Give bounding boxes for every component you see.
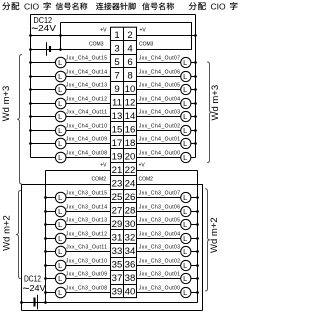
svg-text:L: L: [183, 85, 187, 94]
svg-text:Jxx_Ch3_Out04: Jxx_Ch3_Out04: [139, 231, 181, 237]
lamp L (pin 25): [55, 192, 66, 203]
svg-text:Jxx_Ch3_Out15: Jxx_Ch3_Out15: [66, 190, 108, 196]
svg-text:COM2: COM2: [92, 177, 107, 183]
lamp L (pin 37): [55, 273, 66, 284]
svg-text:Jxx_Ch3_Out12: Jxx_Ch3_Out12: [66, 231, 108, 237]
svg-text:13: 13: [112, 111, 123, 122]
junction dots (lower-right): [196, 196, 199, 294]
supply bus (lower-right): [197, 171, 199, 303]
lamp L (pin 30): [181, 219, 191, 229]
svg-text:15: 15: [112, 125, 123, 136]
wire: row pin 20: [137, 157, 196, 159]
svg-text:Jxx_Ch4_Out03: Jxx_Ch4_Out03: [139, 109, 181, 115]
svg-text:27: 27: [112, 206, 123, 217]
junction dots (top-right): [194, 34, 197, 145]
svg-text:Jxx_Ch4_Out04: Jxx_Ch4_Out04: [139, 96, 181, 102]
svg-text:L: L: [58, 99, 62, 108]
svg-text:Wd m+2: Wd m+2: [2, 215, 13, 251]
lamp L (pin 10): [181, 84, 191, 94]
svg-text:Jxx_Ch4_Out08: Jxx_Ch4_Out08: [66, 150, 108, 156]
junction dots (top-left): [29, 34, 62, 145]
svg-text:Jxx_Ch4_Out02: Jxx_Ch4_Out02: [139, 123, 181, 129]
header label: 信号名称 (right): [142, 3, 174, 10]
lamp L (pin 33): [55, 246, 66, 257]
wire: row pin 29: [46, 224, 111, 226]
lamp L (pin 7): [55, 71, 66, 82]
svg-text:L: L: [183, 288, 187, 297]
svg-text:L: L: [183, 193, 187, 202]
wire: +V to pin 2: [137, 35, 196, 37]
lamp L (pin 13): [55, 111, 66, 122]
svg-text:Jxx_Ch4_Out07: Jxx_Ch4_Out07: [139, 55, 181, 61]
svg-text:L: L: [58, 85, 62, 94]
svg-text:21: 21: [112, 165, 123, 176]
svg-text:9: 9: [114, 84, 119, 95]
wire: row pin 38: [137, 278, 198, 280]
junction dots (lower-left): [20, 196, 47, 304]
wire: row pin 6: [137, 62, 196, 64]
svg-text:Jxx_Ch4_Out14: Jxx_Ch4_Out14: [66, 69, 108, 75]
svg-text:23: 23: [112, 179, 123, 190]
svg-text:Jxx_Ch4_Out11: Jxx_Ch4_Out11: [66, 109, 107, 115]
wire: row pin 36: [137, 265, 198, 267]
svg-text:36: 36: [125, 260, 136, 271]
svg-text:Jxx_Ch3_Out10: Jxx_Ch3_Out10: [66, 258, 108, 264]
svg-text:L: L: [58, 288, 62, 297]
svg-text:Jxx_Ch3_Out09: Jxx_Ch3_Out09: [66, 271, 108, 277]
wire: row pin 27: [46, 211, 111, 213]
lamp L (pin 9): [55, 84, 66, 95]
header label: 分配 CIO 字 (right): [189, 1, 237, 11]
svg-text:Jxx_Ch3_Out02: Jxx_Ch3_Out02: [139, 258, 181, 264]
svg-text:Jxx_Ch4_Out15: Jxx_Ch4_Out15: [66, 55, 108, 61]
svg-text:COM2: COM2: [139, 177, 154, 183]
lamp L (pin 32): [181, 233, 191, 243]
wire: row pin 14: [137, 116, 196, 118]
lamp L (pin 35): [55, 260, 66, 271]
svg-text:L: L: [183, 234, 187, 243]
battery symbol (top supply): [47, 42, 51, 55]
svg-text:Jxx_Ch4_Out09: Jxx_Ch4_Out09: [66, 136, 108, 142]
svg-text:11: 11: [112, 97, 122, 108]
svg-text:L: L: [58, 220, 62, 229]
svg-text:34: 34: [125, 246, 136, 257]
lamp L (pin 26): [181, 192, 191, 202]
wire: row pin 7: [31, 76, 111, 78]
supply bus (top-right): [195, 15, 197, 158]
wire: +V to pin 22: [137, 170, 198, 172]
svg-text:Jxx_Ch3_Out01: Jxx_Ch3_Out01: [139, 271, 181, 277]
svg-text:35: 35: [112, 260, 123, 271]
lamp L (pin 6): [181, 57, 191, 67]
battery symbol (bottom supply): [35, 295, 38, 310]
svg-text:8: 8: [127, 70, 132, 81]
svg-text:COM3: COM3: [139, 42, 154, 48]
svg-text:28: 28: [125, 206, 136, 217]
group brace Wd m+3 (right): [207, 62, 212, 163]
svg-text:L: L: [183, 274, 187, 283]
wire: COM2 to pin 23: [22, 184, 111, 186]
svg-text:L: L: [183, 207, 187, 216]
svg-text:7: 7: [114, 70, 119, 81]
wire: row pin 25: [46, 197, 111, 199]
group brace Wd m+2 (left): [16, 190, 21, 278]
svg-text:+V: +V: [100, 28, 107, 34]
svg-text:Wd m+3: Wd m+3: [210, 85, 221, 121]
svg-text:CIO: CIO: [24, 1, 40, 11]
wire: bottom COM2 bus: [22, 310, 203, 312]
svg-text:4: 4: [127, 43, 133, 54]
header label: 分配 CIO 字 (left): [2, 1, 50, 11]
svg-text:L: L: [58, 153, 62, 162]
group brace Wd m+3 (left): [17, 55, 22, 185]
svg-text:24: 24: [125, 179, 136, 190]
header label: 信号名称 (left): [56, 3, 88, 10]
svg-text:14: 14: [125, 111, 136, 122]
svg-text:L: L: [183, 261, 187, 270]
wire: COM3 to pin 3: [31, 49, 111, 51]
svg-text:L: L: [58, 234, 62, 243]
wire: row pin 40: [137, 292, 198, 294]
svg-text:12: 12: [125, 97, 136, 108]
svg-text:26: 26: [125, 192, 136, 203]
svg-text:38: 38: [125, 273, 136, 284]
wire: row pin 28: [137, 211, 198, 213]
lamp L (pin 12): [181, 98, 191, 108]
svg-text:L: L: [58, 274, 62, 283]
wire: row pin 12: [137, 103, 196, 105]
svg-text:20: 20: [125, 152, 136, 163]
wire: row pin 13: [31, 116, 111, 118]
svg-text:L: L: [183, 72, 187, 81]
lamp L (pin 17): [55, 138, 66, 149]
svg-text:L: L: [58, 261, 62, 270]
lamp L (pin 15): [55, 125, 66, 136]
wire: +V to pin 21: [46, 170, 111, 172]
DC supply box (top) DC12~24V: [30, 15, 32, 36]
wire: row pin 8: [137, 76, 196, 78]
lamp L (pin 38): [181, 273, 191, 283]
svg-text:L: L: [183, 99, 187, 108]
wire: battery row to lower-right bus: [22, 302, 198, 304]
svg-text:3: 3: [114, 43, 119, 54]
svg-text:10: 10: [125, 84, 136, 95]
lamp L (pin 29): [55, 219, 66, 230]
group brace Wd m+2 (right): [205, 189, 210, 291]
lamp L (pin 36): [181, 260, 191, 270]
svg-text:L: L: [58, 207, 62, 216]
lamp L (pin 31): [55, 233, 66, 244]
lamp L (pin 34): [181, 246, 191, 256]
svg-text:2: 2: [127, 30, 132, 41]
wire: row pin 39: [46, 292, 111, 294]
wire: COM3 link across top (line B): [61, 23, 192, 50]
connector body (40-pin table): [111, 27, 137, 297]
svg-text:L: L: [183, 153, 187, 162]
header label: 连接器针脚: [96, 3, 136, 10]
lamp L (pin 8): [181, 71, 191, 81]
svg-text:33: 33: [112, 246, 123, 257]
svg-text:Jxx_Ch4_Out10: Jxx_Ch4_Out10: [66, 123, 108, 129]
svg-text:L: L: [183, 220, 187, 229]
svg-text:32: 32: [125, 233, 136, 244]
svg-text:L: L: [58, 139, 62, 148]
svg-text:COM3: COM3: [89, 42, 104, 48]
svg-text:Jxx_Ch3_Out07: Jxx_Ch3_Out07: [139, 190, 181, 196]
svg-text:39: 39: [112, 287, 123, 298]
svg-text:L: L: [183, 247, 187, 256]
svg-text:L: L: [183, 139, 187, 148]
lamp L (pin 39): [55, 287, 66, 298]
svg-text:Jxx_Ch4_Out13: Jxx_Ch4_Out13: [66, 82, 108, 88]
svg-text:29: 29: [112, 219, 123, 230]
wire: COM2 to pin 24 and return (lower-right): [137, 185, 203, 311]
wire: COM2 return (lower-left vertical): [21, 185, 23, 311]
svg-text:37: 37: [112, 273, 123, 284]
svg-text:24V: 24V: [30, 283, 46, 293]
svg-text:+V: +V: [140, 27, 147, 33]
svg-text:5: 5: [114, 57, 119, 68]
lamp L (pin 18): [181, 138, 191, 148]
svg-text:Jxx_Ch4_Out01: Jxx_Ch4_Out01: [139, 136, 181, 142]
svg-text:24V: 24V: [38, 23, 56, 33]
wire: +V rail across top (line A): [31, 14, 196, 16]
svg-text:31: 31: [112, 233, 123, 244]
svg-text:L: L: [58, 72, 62, 81]
wire: row pin 35: [46, 265, 111, 267]
svg-text:L: L: [183, 112, 187, 121]
svg-text:6: 6: [127, 57, 132, 68]
wire: row pin 19: [31, 157, 111, 159]
wire: row pin 16: [137, 130, 196, 132]
lamp L (pin 14): [181, 111, 191, 121]
wire: row pin 33: [46, 251, 111, 253]
svg-text:17: 17: [112, 138, 123, 149]
wire: row pin 34: [137, 251, 198, 253]
svg-text:Jxx_Ch3_Out11: Jxx_Ch3_Out11: [66, 244, 107, 250]
svg-text:Jxx_Ch3_Out03: Jxx_Ch3_Out03: [139, 244, 181, 250]
svg-text:L: L: [58, 247, 62, 256]
svg-text:30: 30: [125, 219, 136, 230]
wire: +V to pin 1: [31, 35, 111, 37]
svg-text:Jxx_Ch4_Out12: Jxx_Ch4_Out12: [66, 96, 108, 102]
svg-text:19: 19: [112, 152, 123, 163]
wire: row pin 17: [31, 143, 111, 145]
wire: row pin 10: [137, 89, 196, 91]
svg-text:Jxx_Ch3_Out13: Jxx_Ch3_Out13: [66, 217, 108, 223]
wire: row pin 30: [137, 224, 198, 226]
svg-text:Jxx_Ch4_Out05: Jxx_Ch4_Out05: [139, 82, 181, 88]
svg-text:L: L: [58, 126, 62, 135]
lamp L (pin 19): [55, 152, 66, 163]
svg-text:L: L: [183, 58, 187, 67]
wire: row pin 37: [46, 278, 111, 280]
supply bus (top-left): [30, 36, 32, 158]
svg-text:L: L: [183, 126, 187, 135]
svg-text:22: 22: [125, 165, 136, 176]
svg-text:+V: +V: [100, 163, 107, 169]
svg-text:40: 40: [125, 287, 136, 298]
svg-text:Jxx_Ch3_Out05: Jxx_Ch3_Out05: [139, 217, 181, 223]
svg-text:~: ~: [23, 282, 30, 296]
wire: row pin 26: [137, 197, 198, 199]
wire: row pin 31: [46, 238, 111, 240]
lamp L (pin 5): [55, 57, 66, 68]
lamp L (pin 28): [181, 206, 191, 216]
lamp L (pin 11): [55, 98, 66, 109]
svg-text:Wd m+2: Wd m+2: [209, 217, 220, 253]
svg-text:Jxx_Ch4_Out06: Jxx_Ch4_Out06: [139, 69, 181, 75]
svg-text:L: L: [58, 193, 62, 202]
svg-text:+V: +V: [139, 162, 146, 168]
svg-text:25: 25: [112, 192, 123, 203]
svg-text:Jxx_Ch3_Out06: Jxx_Ch3_Out06: [139, 204, 181, 210]
svg-text:1: 1: [114, 30, 119, 41]
svg-text:18: 18: [125, 138, 136, 149]
svg-text:Jxx_Ch4_Out00: Jxx_Ch4_Out00: [139, 150, 181, 156]
svg-text:Jxx_Ch3_Out14: Jxx_Ch3_Out14: [66, 204, 108, 210]
lamp L (pin 20): [181, 152, 191, 162]
svg-text:Jxx_Ch3_Out08: Jxx_Ch3_Out08: [66, 285, 108, 291]
svg-text:L: L: [58, 112, 62, 121]
svg-text:Wd m+3: Wd m+3: [1, 86, 12, 122]
wire: row pin 5: [31, 62, 111, 64]
wire: row pin 9: [31, 89, 111, 91]
svg-text:16: 16: [125, 125, 136, 136]
supply bus (lower-left): [45, 171, 47, 303]
svg-text:Jxx_Ch3_Out00: Jxx_Ch3_Out00: [139, 285, 181, 291]
svg-text:CIO: CIO: [211, 1, 227, 11]
wire: row pin 15: [31, 130, 111, 132]
wire: supply box to COM3 link: [60, 23, 62, 50]
lamp L (pin 40): [181, 287, 191, 297]
wire: row pin 11: [31, 103, 111, 105]
wire: row pin 18: [137, 143, 196, 145]
lamp L (pin 16): [181, 125, 191, 135]
lamp L (pin 27): [55, 206, 66, 217]
wire: row pin 32: [137, 238, 198, 240]
svg-text:L: L: [58, 58, 62, 67]
